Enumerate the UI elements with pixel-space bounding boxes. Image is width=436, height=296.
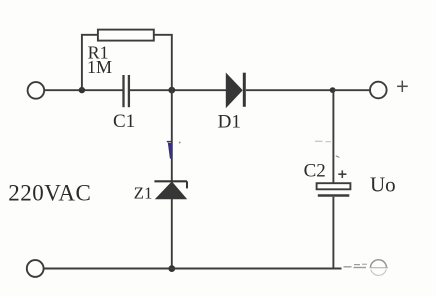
- svg-text:C2: C2: [304, 161, 326, 182]
- terminal AC input bottom-left: [27, 260, 44, 277]
- node A junction: [79, 87, 85, 93]
- watermark faded marks bottom right: [344, 264, 368, 267]
- svg-text:220VAC: 220VAC: [8, 180, 91, 205]
- resistor R1: [98, 30, 154, 41]
- watermark faded terminal circle bottom right: [370, 260, 389, 276]
- svg-text:Z1: Z1: [134, 184, 153, 203]
- wire: [44, 89, 122, 91]
- plus sign output: [397, 81, 408, 92]
- wire: [333, 89, 370, 91]
- wire bottom rail: [44, 268, 342, 270]
- node D junction: [168, 265, 175, 272]
- svg-text:D1: D1: [218, 111, 241, 132]
- wire C2 branch bottom: [332, 197, 334, 269]
- terminal AC input top-left: [28, 82, 45, 99]
- node C junction: [330, 87, 336, 93]
- capacitor C1: [124, 75, 129, 107]
- diode D1: [226, 73, 244, 107]
- wire: [246, 89, 333, 91]
- node B junction: [168, 87, 175, 94]
- wire C2 branch top: [332, 90, 334, 183]
- capacitor C2 electrolytic: [317, 183, 351, 195]
- zener diode Z1: [154, 181, 187, 198]
- plus sign C2 polarity: [338, 170, 346, 178]
- svg-text:Uo: Uo: [370, 173, 396, 197]
- wire zener branch: [171, 90, 173, 181]
- svg-text:C1: C1: [113, 111, 135, 132]
- wire: [130, 89, 226, 91]
- wire: [171, 199, 173, 269]
- svg-text:1M: 1M: [87, 57, 112, 77]
- watermark faint smudge near C2 wire: [315, 141, 339, 157]
- blue cursor artifact: [167, 142, 181, 159]
- wire resistor loop: [82, 35, 172, 90]
- terminal output plus top-right: [370, 82, 387, 99]
